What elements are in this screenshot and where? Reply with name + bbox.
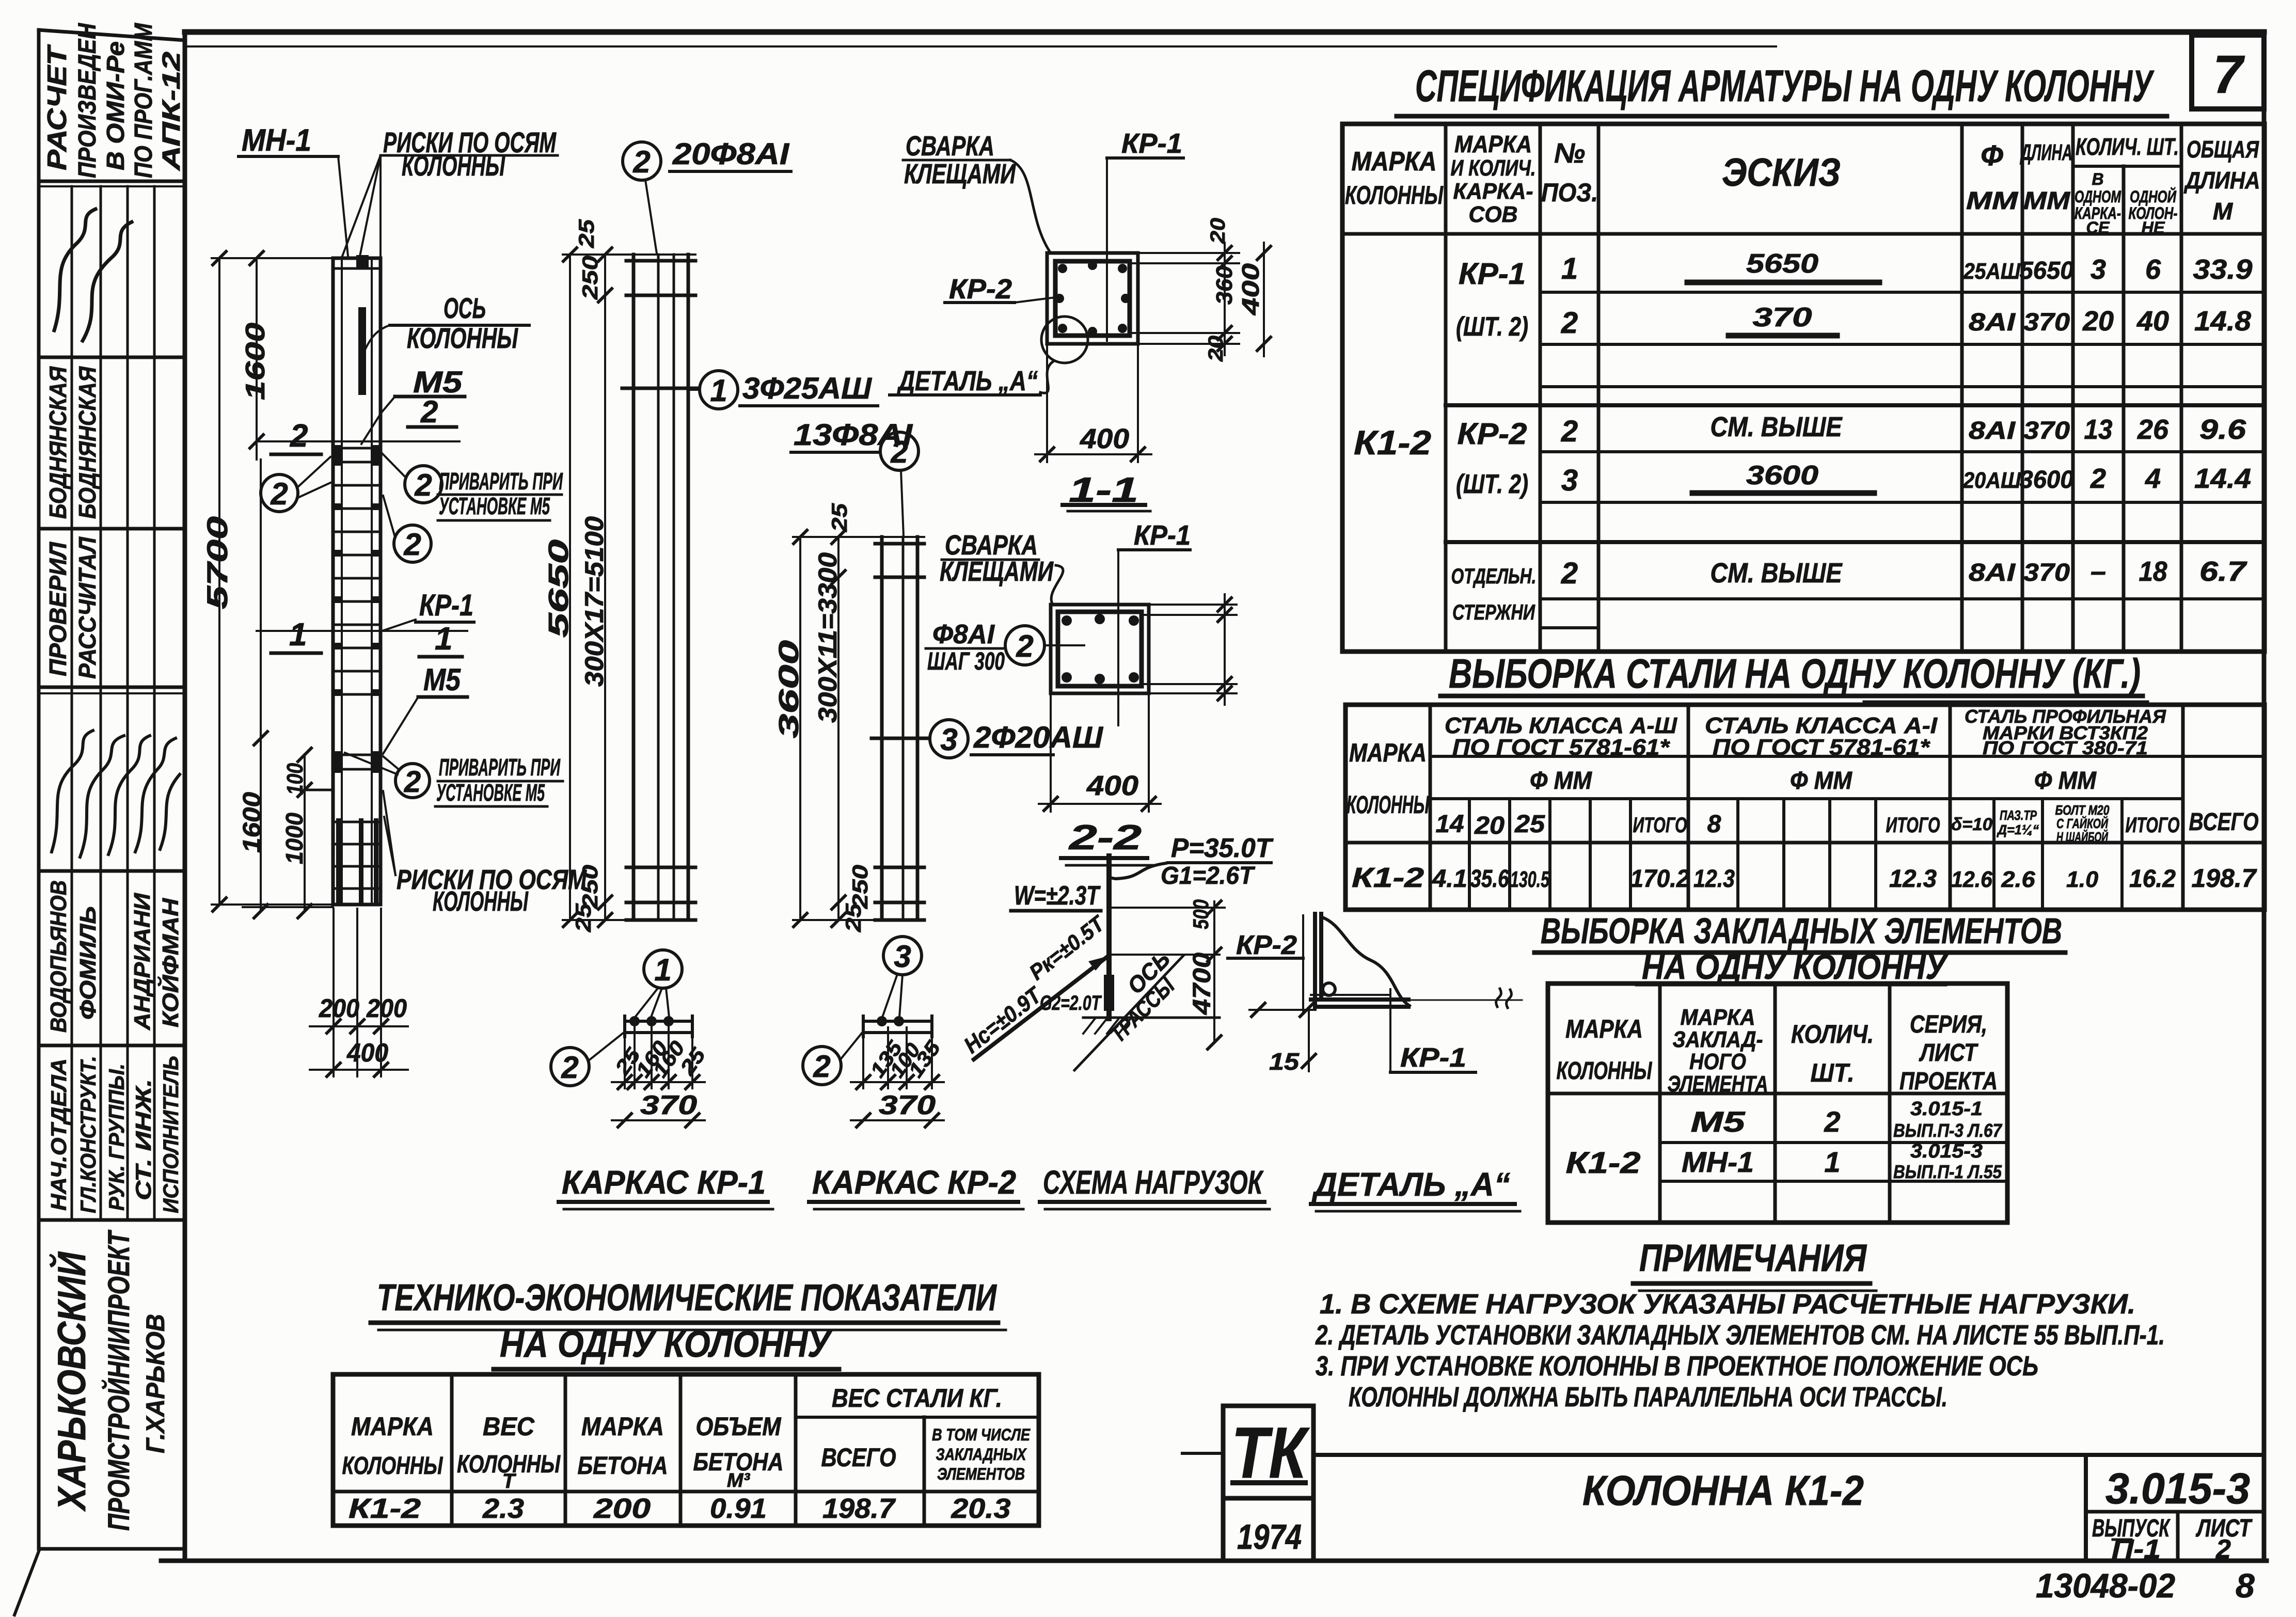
- svg-text:100: 100: [282, 763, 308, 795]
- signatures row2: [54, 209, 96, 330]
- svg-text:2: 2: [414, 468, 432, 502]
- svg-text:8АI: 8АI: [1969, 559, 2016, 586]
- svg-text:КР-2: КР-2: [1458, 417, 1527, 451]
- svg-text:М: М: [2213, 198, 2234, 225]
- svg-text:ШТ.: ШТ.: [1811, 1058, 1855, 1087]
- svg-text:1: 1: [654, 953, 671, 987]
- circled 3 (plan Kr-2): [883, 937, 922, 975]
- svg-text:КР-2: КР-2: [949, 274, 1012, 305]
- svg-text:СТ. ИНЖ.: СТ. ИНЖ.: [131, 1079, 155, 1200]
- svg-text:170.2: 170.2: [1630, 865, 1690, 893]
- svg-text:G1=2.6Т: G1=2.6Т: [1161, 862, 1256, 890]
- svg-text:3: 3: [2091, 254, 2106, 285]
- svg-text:МАРКА: МАРКА: [1454, 131, 1532, 157]
- Karkas Kr-1 plan view: [625, 1020, 692, 1023]
- svg-text:370: 370: [2023, 417, 2070, 445]
- svg-text:ТЕХНИКО-ЭКОНОМИЧЕСКИЕ ПОКАЗАТЕ: ТЕХНИКО-ЭКОНОМИЧЕСКИЕ ПОКАЗАТЕЛИ: [377, 1277, 997, 1319]
- plan Kr-1 dim 370: [612, 1119, 705, 1121]
- svg-text:6.7: 6.7: [2199, 556, 2248, 587]
- loads Pk and Hc diagonal: [974, 956, 1108, 1059]
- svg-text:СВАРКА: СВАРКА: [906, 131, 994, 162]
- svg-text:КР-1: КР-1: [1459, 257, 1526, 291]
- svg-text:ВСЕГО: ВСЕГО: [2189, 808, 2259, 836]
- load scheme column: [1106, 856, 1112, 1019]
- svg-text:9.6: 9.6: [2199, 414, 2246, 445]
- Kr-1 extension lines: [563, 253, 695, 256]
- svg-text:Н ШАЙБОЙ: Н ШАЙБОЙ: [2056, 829, 2109, 845]
- svg-text:В ТОМ ЧИСЛЕ: В ТОМ ЧИСЛЕ: [932, 1425, 1031, 1444]
- svg-text:20: 20: [1205, 336, 1227, 362]
- Kr-2 ties: [875, 542, 924, 546]
- svg-text:4: 4: [2145, 463, 2161, 494]
- svg-text:БОДНЯНСКАЯ: БОДНЯНСКАЯ: [74, 366, 101, 519]
- circled 1 (plan Kr-1): [644, 950, 682, 988]
- Kr-1 dim 5650: [569, 255, 571, 920]
- svg-text:РАССЧИТАЛ: РАССЧИТАЛ: [74, 536, 101, 679]
- svg-text:ОБЩАЯ: ОБЩАЯ: [2187, 136, 2259, 163]
- svg-text:МАРКА: МАРКА: [1352, 147, 1437, 177]
- svg-text:Г.ХАРЬКОВ: Г.ХАРЬКОВ: [141, 1314, 170, 1453]
- svg-text:20АШ: 20АШ: [1962, 468, 2021, 493]
- svg-text:ВЫП.П-1 Л.55: ВЫП.П-1 Л.55: [1893, 1161, 2002, 1182]
- svg-text:2: 2: [1824, 1105, 1840, 1138]
- Kr-2 extension lines: [793, 536, 924, 538]
- svg-text:СМ. ВЫШЕ: СМ. ВЫШЕ: [1711, 411, 1843, 442]
- svg-text:1: 1: [1824, 1146, 1840, 1178]
- series cell 3.015-3: [2084, 1455, 2088, 1561]
- svg-text:13048-02: 13048-02: [2036, 1566, 2175, 1605]
- svg-text:25АШ: 25АШ: [1963, 259, 2021, 284]
- svg-text:ИТОГО: ИТОГО: [1633, 813, 1687, 837]
- svg-text:8: 8: [1707, 811, 1721, 838]
- embedded plate MN-1 cap: [333, 267, 381, 270]
- embed table header: [1557, 1005, 1998, 1097]
- embed table data: [1566, 1098, 2003, 1182]
- embedded elements table grid: [1548, 984, 2007, 1223]
- svg-text:СПЕЦИФИКАЦИЯ АРМАТУРЫ НА ОДНУ: СПЕЦИФИКАЦИЯ АРМАТУРЫ НА ОДНУ КОЛОННУ: [1415, 61, 2155, 111]
- svg-text:15: 15: [1269, 1048, 1300, 1075]
- svg-text:2: 2: [2090, 463, 2106, 494]
- plan Kr-1 dims 25/160/160/25: [624, 1037, 626, 1088]
- section 1-1 right dims: [1138, 252, 1239, 254]
- sheet outer frame: [185, 29, 2264, 35]
- svg-text:ОТДЕЛЬН.: ОТДЕЛЬН.: [1451, 564, 1537, 588]
- steel table header text: [1347, 706, 2259, 845]
- svg-text:ЭЛЕМЕНТА: ЭЛЕМЕНТА: [1668, 1071, 1768, 1097]
- svg-text:ВЕС: ВЕС: [483, 1412, 535, 1441]
- svg-text:СОВ: СОВ: [1469, 202, 1518, 227]
- svg-text:АНДРИАНИ: АНДРИАНИ: [130, 893, 155, 1031]
- svg-text:ЭЛЕМЕНТОВ: ЭЛЕМЕНТОВ: [937, 1465, 1025, 1483]
- svg-text:200: 200: [319, 994, 359, 1023]
- circled 2 (left): [261, 474, 298, 512]
- svg-text:130.5: 130.5: [1510, 867, 1549, 892]
- svg-text:5650: 5650: [2020, 257, 2074, 284]
- svg-text:16.2: 16.2: [2129, 865, 2176, 893]
- svg-text:2: 2: [420, 394, 438, 429]
- svg-text:ВЕС СТАЛИ КГ.: ВЕС СТАЛИ КГ.: [832, 1384, 1002, 1413]
- spec table header text: [1345, 131, 2260, 237]
- TEP data: [349, 1493, 1011, 1524]
- svg-text:2.3: 2.3: [482, 1493, 524, 1524]
- svg-text:МАРКА: МАРКА: [581, 1412, 664, 1441]
- svg-text:2: 2: [2215, 1534, 2231, 1564]
- svg-text:К1-2: К1-2: [1352, 862, 1424, 893]
- svg-text:33.9: 33.9: [2193, 254, 2253, 285]
- svg-text:К1-2: К1-2: [1354, 423, 1431, 462]
- svg-text:СТЕРЖНИ: СТЕРЖНИ: [1452, 600, 1535, 624]
- svg-text:ХАРЬКОВСКИЙ: ХАРЬКОВСКИЙ: [49, 1251, 94, 1512]
- svg-text:3600: 3600: [2020, 466, 2074, 494]
- svg-text:НЕ: НЕ: [2142, 218, 2166, 237]
- svg-text:2: 2: [890, 435, 908, 469]
- svg-text:2: 2: [632, 145, 650, 179]
- svg-text:МАРКА: МАРКА: [351, 1412, 434, 1441]
- svg-text:КОЛОННЫ: КОЛОННЫ: [433, 886, 529, 917]
- svg-text:3: 3: [940, 722, 957, 757]
- svg-text:300Х17=5100: 300Х17=5100: [580, 516, 609, 687]
- svg-text:250: 250: [848, 865, 872, 909]
- svg-text:13: 13: [2084, 414, 2113, 445]
- section 1-1 dim 400: [1046, 344, 1048, 462]
- svg-text:(ШТ. 2): (ШТ. 2): [1456, 312, 1528, 342]
- svg-text:КР-1: КР-1: [419, 589, 473, 622]
- svg-text:МН-1: МН-1: [242, 123, 311, 157]
- svg-text:1000: 1000: [281, 813, 308, 864]
- svg-text:14.4: 14.4: [2194, 463, 2251, 494]
- svg-text:СХЕМА НАГРУЗОК: СХЕМА НАГРУЗОК: [1043, 1164, 1264, 1201]
- TEP table grid: [333, 1374, 1039, 1526]
- svg-text:0.91: 0.91: [710, 1493, 767, 1524]
- svg-text:2: 2: [1561, 415, 1578, 448]
- svg-text:20: 20: [1207, 218, 1229, 244]
- svg-text:2: 2: [1016, 629, 1033, 663]
- svg-text:СЕ: СЕ: [2086, 218, 2111, 237]
- svg-text:ВЫБОРКА ЗАКЛАДНЫХ ЭЛЕМЕНТОВ: ВЫБОРКА ЗАКЛАДНЫХ ЭЛЕМЕНТОВ: [1541, 911, 2062, 951]
- detail A circle mark: [1041, 316, 1088, 363]
- svg-text:370: 370: [1753, 303, 1812, 332]
- svg-text:12.3: 12.3: [1889, 865, 1937, 893]
- svg-text:1: 1: [289, 617, 307, 653]
- svg-text:ЭСКИЗ: ЭСКИЗ: [1722, 151, 1841, 195]
- TK logo box: [1223, 1406, 1313, 1498]
- svg-text:198.7: 198.7: [822, 1493, 896, 1524]
- svg-text:5650: 5650: [1746, 249, 1818, 279]
- svg-text:Ф: Ф: [1981, 139, 2003, 171]
- svg-text:КР-1: КР-1: [1400, 1043, 1466, 1073]
- svg-text:3600: 3600: [1746, 461, 1818, 490]
- stamp column lines: [71, 186, 73, 1220]
- svg-text:Ф ММ: Ф ММ: [1530, 767, 1592, 795]
- callout circled 2 : 20 d8 AI: [623, 142, 661, 180]
- svg-text:Т: Т: [502, 1470, 517, 1493]
- svg-text:КОЙФМАН: КОЙФМАН: [157, 898, 183, 1027]
- sketch bars in eskiz column: [1687, 280, 1879, 286]
- svg-text:СМ. ВЫШЕ: СМ. ВЫШЕ: [1711, 558, 1843, 589]
- section 1-1 cut line: [257, 630, 467, 632]
- svg-text:КАРКАС КР-1: КАРКАС КР-1: [562, 1164, 766, 1201]
- frame Kr-2 elevation: [880, 537, 884, 920]
- circled 2 (plan Kr-2): [803, 1047, 841, 1085]
- dimension 1600 top: [256, 258, 258, 459]
- svg-text:КР-1: КР-1: [1121, 128, 1182, 159]
- steel table grid: [1345, 705, 2265, 910]
- svg-text:КОЛИЧ.: КОЛИЧ.: [1791, 1020, 1874, 1049]
- spec table data: [1354, 249, 2253, 624]
- svg-text:1600: 1600: [241, 323, 271, 400]
- svg-text:4.1: 4.1: [1432, 865, 1467, 893]
- svg-text:3600: 3600: [773, 640, 804, 738]
- svg-text:ПРОИЗВЕДЕН: ПРОИЗВЕДЕН: [74, 23, 101, 178]
- svg-text:ФОМИЛЬ: ФОМИЛЬ: [75, 906, 101, 1020]
- rebar dots section 2-2: [1062, 614, 1139, 684]
- section 2-2 cut line: [257, 440, 460, 442]
- svg-text:300Х11=3300: 300Х11=3300: [813, 552, 842, 723]
- circled 2 lower: [394, 525, 431, 562]
- svg-text:КР-2: КР-2: [1236, 930, 1297, 960]
- svg-text:РУК. ГРУППЫ.: РУК. ГРУППЫ.: [104, 1064, 129, 1211]
- svg-text:2: 2: [270, 477, 288, 511]
- svg-text:4700: 4700: [1189, 953, 1216, 1015]
- svg-text:ДЛИНА: ДЛИНА: [2183, 167, 2260, 194]
- svg-text:400: 400: [346, 1038, 388, 1067]
- svg-text:ПРИВАРИТЬ ПРИ: ПРИВАРИТЬ ПРИ: [439, 754, 561, 781]
- Kr-2 dim 3600: [799, 537, 801, 920]
- svg-text:РАСЧЕТ: РАСЧЕТ: [42, 44, 72, 170]
- svg-text:КЛЕЩАМИ: КЛЕЩАМИ: [940, 556, 1054, 587]
- svg-text:370: 370: [2023, 559, 2070, 586]
- break mark right (detail A): [1408, 1000, 1522, 1001]
- svg-text:250: 250: [578, 865, 602, 909]
- svg-text:Р=35.0Т: Р=35.0Т: [1171, 833, 1274, 863]
- svg-text:500: 500: [1189, 899, 1213, 929]
- title block top line: [1313, 1453, 2264, 1457]
- svg-text:ОДНОМ: ОДНОМ: [2075, 187, 2121, 206]
- section 2-2 dim 400: [1050, 693, 1052, 812]
- svg-text:25: 25: [571, 903, 595, 932]
- svg-text:К1-2: К1-2: [349, 1493, 421, 1524]
- svg-text:δ=10: δ=10: [1951, 815, 1992, 834]
- svg-text:ММ: ММ: [1966, 187, 2018, 215]
- dim 15 (detail A): [1249, 1009, 1316, 1011]
- specification table grid: [1342, 124, 2265, 652]
- svg-text:ДЛИНА: ДЛИНА: [2019, 140, 2072, 165]
- svg-text:14: 14: [1436, 811, 1464, 838]
- svg-text:3Ф25АШ: 3Ф25АШ: [742, 372, 872, 405]
- svg-text:3. ПРИ УСТАНОВКЕ КОЛОННЫ В ПРО: 3. ПРИ УСТАНОВКЕ КОЛОННЫ В ПРОЕКТНОЕ ПОЛ…: [1316, 1351, 2038, 1382]
- svg-text:КОЛОННЫ: КОЛОННЫ: [1347, 791, 1430, 819]
- svg-text:ГЛ.КОНСТРУКТ.: ГЛ.КОНСТРУКТ.: [76, 1056, 100, 1213]
- svg-text:ПО ПРОГ.АММ: ПО ПРОГ.АММ: [130, 23, 157, 178]
- callout circled 1 : 3 d25 AIII: [700, 371, 738, 409]
- svg-text:2-2: 2-2: [1068, 818, 1142, 857]
- circled 2 (plan Kr-1): [551, 1048, 589, 1086]
- dim 500 / 4700: [1213, 901, 1215, 1042]
- svg-text:3.015-3: 3.015-3: [2105, 1464, 2250, 1513]
- svg-text:ЛИСТ: ЛИСТ: [1919, 1039, 1978, 1067]
- svg-text:1974: 1974: [1237, 1517, 1302, 1557]
- svg-text:ПРОМСТРОЙНИИПРОЕКТ: ПРОМСТРОЙНИИПРОЕКТ: [102, 1229, 136, 1531]
- svg-text:40: 40: [2136, 306, 2169, 337]
- callout circled 3 : 2 d20 AIII: [930, 720, 968, 758]
- svg-text:ДЕТАЛЬ „А“: ДЕТАЛЬ „А“: [897, 366, 1038, 397]
- svg-text:КАРКА-: КАРКА-: [1453, 179, 1533, 204]
- svg-text:НОГО: НОГО: [1689, 1049, 1746, 1074]
- svg-text:№: №: [1554, 138, 1585, 169]
- svg-text:8АI: 8АI: [1969, 417, 2016, 445]
- section 2-2: [1051, 605, 1149, 693]
- svg-text:ШАГ 300: ШАГ 300: [927, 648, 1005, 675]
- svg-text:14.8: 14.8: [2194, 306, 2251, 337]
- Kr-2 dim 300x11=3300: [837, 537, 840, 920]
- svg-text:МАРКА: МАРКА: [1565, 1014, 1643, 1043]
- svg-text:УСТАНОВКЕ М5: УСТАНОВКЕ М5: [436, 779, 545, 806]
- svg-text:БЕТОНА: БЕТОНА: [578, 1452, 668, 1480]
- svg-text:КОЛОННА К1-2: КОЛОННА К1-2: [1582, 1467, 1864, 1514]
- svg-text:W=±2.3Т: W=±2.3Т: [1014, 881, 1101, 911]
- svg-text:ВСЕГО: ВСЕГО: [821, 1443, 896, 1472]
- svg-text:250: 250: [578, 256, 602, 300]
- svg-text:3.015-1: 3.015-1: [1910, 1098, 1983, 1120]
- svg-text:Нс=±0.9Т: Нс=±0.9Т: [959, 982, 1047, 1058]
- page number box 7: [2192, 35, 2264, 109]
- svg-text:2.6: 2.6: [2001, 867, 2035, 892]
- svg-text:КОЛОННЫ: КОЛОННЫ: [342, 1452, 444, 1480]
- steel table data row: [1352, 862, 2257, 893]
- svg-text:200: 200: [593, 1493, 651, 1524]
- svg-text:1: 1: [1561, 252, 1578, 286]
- svg-text:360: 360: [1212, 265, 1237, 305]
- svg-text:МАРКА: МАРКА: [1349, 738, 1427, 767]
- dimension 5700: [218, 258, 220, 905]
- rebar dots section 1-1: [1055, 261, 1130, 336]
- svg-text:20Ф8АI: 20Ф8АI: [672, 137, 790, 171]
- svg-text:2Ф20АШ: 2Ф20АШ: [973, 721, 1103, 754]
- svg-text:G2=2.0Т: G2=2.0Т: [1040, 992, 1102, 1014]
- Karkas Kr-2 plan view: [863, 1020, 932, 1023]
- svg-text:3: 3: [1561, 464, 1578, 497]
- svg-text:КОЛОННЫ: КОЛОННЫ: [1557, 1057, 1653, 1085]
- svg-text:–: –: [2091, 556, 2106, 587]
- svg-text:ДЕТАЛЬ „А“: ДЕТАЛЬ „А“: [1311, 1166, 1510, 1203]
- plan Kr-2 dims 135/100/135: [862, 1037, 864, 1088]
- svg-text:1. В СХЕМЕ НАГРУЗОК УКАЗАНЫ РА: 1. В СХЕМЕ НАГРУЗОК УКАЗАНЫ РАСЧЕТНЫЕ НА…: [1320, 1289, 2135, 1320]
- svg-text:20.3: 20.3: [951, 1493, 1010, 1524]
- svg-text:2: 2: [1561, 557, 1578, 590]
- svg-text:3.015-3: 3.015-3: [1910, 1140, 1983, 1162]
- svg-text:ПАЗ.ТР: ПАЗ.ТР: [2000, 807, 2037, 823]
- svg-text:3: 3: [894, 939, 911, 974]
- svg-text:1: 1: [710, 373, 727, 408]
- svg-text:1.0: 1.0: [2066, 867, 2099, 892]
- svg-text:20: 20: [2082, 306, 2114, 337]
- svg-text:ЗАКЛАДНЫХ: ЗАКЛАДНЫХ: [936, 1445, 1027, 1464]
- svg-text:ПРОЕКТА: ПРОЕКТА: [1899, 1068, 1998, 1095]
- svg-text:Рк=±0.5Т: Рк=±0.5Т: [1025, 910, 1110, 985]
- svg-text:25: 25: [574, 219, 598, 248]
- svg-text:КОЛИЧ. ШТ.: КОЛИЧ. ШТ.: [2076, 133, 2179, 160]
- TEP header: [342, 1384, 1031, 1493]
- svg-text:370: 370: [640, 1090, 697, 1120]
- svg-text:ОБЪЕМ: ОБЪЕМ: [696, 1412, 782, 1441]
- svg-text:1600: 1600: [239, 792, 266, 853]
- circled 2 privarit lower: [395, 764, 430, 798]
- column axis mark: [358, 307, 366, 395]
- signatures row5: [52, 731, 93, 852]
- svg-text:ПРОВЕРИЛ: ПРОВЕРИЛ: [44, 542, 71, 676]
- svg-text:ВОДОПЬЯНОВ: ВОДОПЬЯНОВ: [46, 880, 71, 1033]
- svg-text:5700: 5700: [201, 516, 233, 609]
- level extension lines: [1111, 907, 1225, 909]
- svg-text:ВЫП.П-3 Л.67: ВЫП.П-3 Л.67: [1893, 1120, 2003, 1141]
- svg-text:400: 400: [1237, 263, 1264, 315]
- svg-text:ИТОГО: ИТОГО: [2126, 813, 2180, 837]
- svg-text:7: 7: [2213, 45, 2245, 105]
- svg-text:2. ДЕТАЛЬ УСТАНОВКИ ЗАКЛАДНЫХ: 2. ДЕТАЛЬ УСТАНОВКИ ЗАКЛАДНЫХ ЭЛЕМЕНТОВ …: [1315, 1320, 2165, 1351]
- svg-text:МАРКА: МАРКА: [1681, 1005, 1755, 1030]
- svg-text:8АI: 8АI: [1969, 309, 2016, 336]
- svg-text:26: 26: [2137, 414, 2169, 445]
- svg-text:18: 18: [2139, 556, 2167, 587]
- svg-text:2: 2: [1561, 306, 1578, 340]
- svg-text:20: 20: [1474, 812, 1505, 839]
- bottom 200/200/400 dims: [332, 909, 335, 1076]
- svg-text:КОЛОННЫ ДОЛЖНА БЫТЬ ПАРАЛЛЕЛЬН: КОЛОННЫ ДОЛЖНА БЫТЬ ПАРАЛЛЕЛЬНА ОСИ ТРАС…: [1349, 1382, 1947, 1413]
- svg-text:2: 2: [813, 1049, 830, 1084]
- svg-text:400: 400: [1086, 770, 1138, 801]
- svg-text:Ф8АI: Ф8АI: [932, 620, 995, 649]
- svg-text:Ф ММ: Ф ММ: [1790, 767, 1852, 795]
- section 2-2 right dims: [1149, 604, 1237, 606]
- stirrup end marks: [335, 445, 379, 903]
- bottom dims 1600 1000 100: [260, 459, 262, 911]
- svg-text:ИТОГО: ИТОГО: [1886, 813, 1940, 837]
- svg-text:12.3: 12.3: [1693, 865, 1735, 893]
- svg-text:ПРИМЕЧАНИЯ: ПРИМЕЧАНИЯ: [1639, 1236, 1867, 1279]
- svg-text:ОДНОЙ: ОДНОЙ: [2130, 187, 2177, 206]
- svg-text:400: 400: [1080, 423, 1129, 454]
- svg-text:ММ: ММ: [2023, 187, 2070, 215]
- svg-text:Д=1¼“: Д=1¼“: [1997, 822, 2039, 837]
- Kr-1 dim 300x17=5100: [604, 255, 606, 920]
- svg-text:НА ОДНУ КОЛОННУ: НА ОДНУ КОЛОННУ: [1642, 947, 1949, 987]
- svg-text:КОЛОННЫ: КОЛОННЫ: [402, 149, 505, 182]
- plan Kr-2 dim 370: [851, 1119, 944, 1121]
- svg-text:И КОЛИЧ.: И КОЛИЧ.: [1451, 155, 1536, 181]
- trass axis line: [1074, 956, 1183, 1070]
- svg-text:2: 2: [290, 418, 308, 454]
- svg-text:200: 200: [366, 994, 407, 1023]
- svg-text:5650: 5650: [543, 540, 574, 638]
- svg-text:КЛЕЩАМИ: КЛЕЩАМИ: [904, 158, 1016, 189]
- detail A drawing: [1302, 915, 1304, 1012]
- svg-text:ЗАКЛАД-: ЗАКЛАД-: [1673, 1027, 1763, 1052]
- svg-text:25: 25: [1514, 811, 1546, 838]
- base line and hatch: [1083, 1017, 1220, 1019]
- svg-text:(ШТ. 2): (ШТ. 2): [1456, 469, 1528, 499]
- frame Kr-1 elevation: [634, 255, 688, 920]
- svg-text:М5: М5: [423, 662, 461, 697]
- svg-text:ВЫБОРКА СТАЛИ НА ОДНУ КОЛОННУ: ВЫБОРКА СТАЛИ НА ОДНУ КОЛОННУ (КГ.): [1449, 651, 2141, 696]
- svg-text:6: 6: [2145, 254, 2161, 285]
- svg-text:ОСЬ: ОСЬ: [444, 292, 486, 324]
- svg-text:МН-1: МН-1: [1682, 1146, 1754, 1178]
- stirrup ticks: [333, 448, 381, 889]
- svg-text:В ОМИ-Ре: В ОМИ-Ре: [102, 41, 130, 170]
- svg-text:35.6: 35.6: [1470, 865, 1509, 893]
- stamp row lines: [39, 180, 185, 183]
- svg-text:25: 25: [841, 903, 865, 932]
